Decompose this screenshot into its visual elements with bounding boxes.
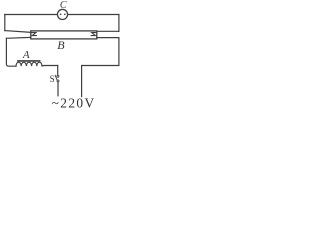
wire stub to tube right top pin <box>97 30 119 32</box>
wire tube right bottom pin to right source terminal <box>82 38 119 97</box>
wire left upper vertical <box>4 15 6 31</box>
svg-text:S: S <box>50 74 55 84</box>
wire top horizontal from left corner to right corner <box>5 14 119 16</box>
fluorescent tube B outline <box>31 31 97 39</box>
filament left <box>31 33 37 36</box>
wire left lower vertical down to ballast <box>6 38 16 66</box>
wire ballast to switch <box>42 65 58 67</box>
svg-text:A: A <box>22 49 30 61</box>
starter C <box>57 9 67 19</box>
svg-text:~220V: ~220V <box>52 96 96 111</box>
wire switch to left source terminal <box>57 82 59 96</box>
svg-text:B: B <box>57 38 65 52</box>
filament right <box>91 33 97 36</box>
ballast A coil <box>16 62 42 66</box>
svg-text:C: C <box>60 0 67 11</box>
wire down to switch top contact <box>57 66 59 76</box>
ballast A core bar <box>18 60 40 62</box>
wire stub to tube left top pin <box>5 31 31 33</box>
switch S contacts and lever <box>55 75 59 82</box>
wire stub tube left bottom pin <box>6 36 30 39</box>
wire right upper vertical <box>118 15 120 32</box>
